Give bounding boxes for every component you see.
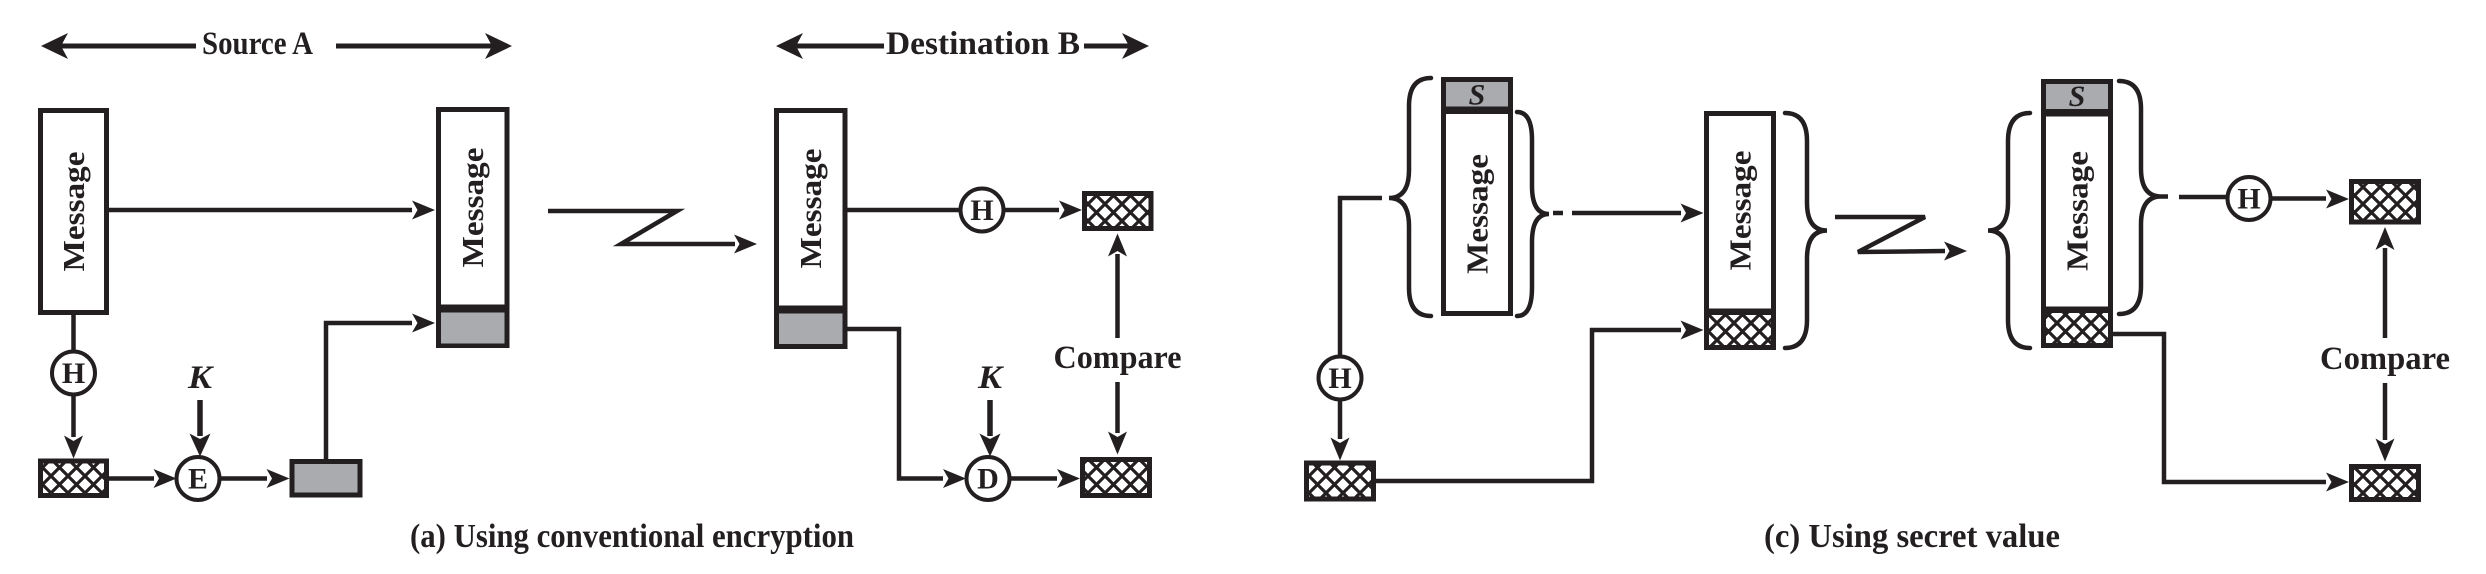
compare arrow up (c) (2376, 227, 2395, 338)
wire M3 to H2 (848, 208, 960, 213)
message box M3 with MAC tag (777, 111, 846, 347)
wire M1 to M2 (109, 201, 435, 220)
svg-text:Message: Message (1723, 151, 1758, 271)
channel zigzag (a) (548, 211, 757, 254)
svg-text:Destination B: Destination B (886, 26, 1080, 62)
arrow K to E (190, 400, 211, 457)
hash code box (a dest bottom) (1080, 457, 1152, 498)
svg-text:Message: Message (793, 149, 828, 269)
svg-text:H: H (970, 194, 993, 227)
wire brace to H3 (1340, 198, 1382, 357)
label Compare (a) (1054, 340, 1182, 376)
message box M1 (41, 111, 107, 313)
hash code box (c dest top) (2349, 179, 2421, 225)
MAC box (gray, source) (292, 462, 360, 496)
arrow hash code to E (109, 469, 177, 488)
brace right of received group (2119, 81, 2161, 314)
hash code box (c source) (1304, 461, 1376, 502)
encrypt function E (177, 457, 220, 500)
svg-text:Message: Message (2060, 151, 2095, 271)
arrow H4 to hash code (2271, 190, 2350, 209)
label Message (c received) (2060, 151, 2095, 271)
label Message (c source) (1460, 154, 1495, 274)
arrow D to hash code (1010, 469, 1081, 488)
arrow K to D (980, 400, 1001, 457)
message box M2 with MAC tag (439, 110, 508, 346)
compare arrow up (a) (1108, 234, 1127, 339)
svg-text:H: H (1328, 362, 1351, 395)
span arrow Source A (41, 33, 512, 59)
decrypt function D (967, 457, 1010, 500)
label Message (c transmitted) (1723, 151, 1758, 271)
hash function H2 (961, 189, 1004, 232)
wire hash code to M2c tag (1376, 321, 1704, 482)
channel zigzag (c) (1835, 217, 1967, 261)
svg-text:Message: Message (56, 152, 91, 272)
svg-text:K: K (187, 360, 214, 396)
caption (a) (410, 518, 854, 555)
arrow H1 to hash code (64, 395, 83, 459)
caption (c) (1764, 518, 2060, 555)
svg-text:E: E (188, 463, 208, 496)
wire M1 to H1 (71, 315, 76, 352)
compare arrow down (a) (1108, 382, 1127, 455)
brace right of source group (1517, 112, 1549, 316)
label K source (187, 360, 214, 396)
svg-text:Message: Message (1460, 154, 1495, 274)
svg-text:Compare: Compare (2320, 341, 2450, 377)
brace left of received group (1988, 113, 2030, 348)
Message+hash box (c transmitted) (1707, 114, 1774, 348)
S+Message+hash box (c received) (2044, 82, 2111, 346)
svg-text:H: H (62, 357, 85, 390)
label K dest (977, 360, 1004, 396)
wire received hash to compare box (2113, 334, 2349, 492)
brace right of transmitted group (1785, 113, 1827, 348)
compare arrow down (c) (2376, 383, 2395, 462)
svg-text:Source A: Source A (202, 26, 313, 62)
arrow E to MAC box (220, 469, 290, 488)
label Compare (c) (2320, 341, 2450, 377)
label Message M2 (455, 148, 490, 268)
label S (c source) (1469, 79, 1486, 112)
svg-text:S: S (2069, 80, 2086, 113)
arrow H3 to hash code (1331, 400, 1350, 461)
hash code box (c dest bottom) (2349, 464, 2421, 502)
label S (c received) (2069, 80, 2086, 113)
label Message M3 (793, 149, 828, 269)
brace left of source group (1389, 78, 1431, 316)
wire M3 tag to D (848, 329, 967, 488)
hash function H3 (1319, 357, 1362, 400)
label Destination B (886, 26, 1080, 62)
svg-text:(c) Using secret value: (c) Using secret value (1764, 518, 2060, 555)
svg-text:H: H (2237, 183, 2260, 216)
label Source A (202, 26, 313, 62)
wire MAC box to M2 tag (326, 314, 435, 460)
svg-text:Compare: Compare (1054, 340, 1182, 376)
wire brace to H4 (2161, 194, 2228, 199)
svg-text:K: K (977, 360, 1004, 396)
hash function H4 (2228, 177, 2271, 220)
hash function H1 (52, 352, 95, 395)
span arrow Destination B (776, 33, 1149, 59)
label Message M1 (56, 152, 91, 272)
svg-text:D: D (977, 463, 999, 496)
svg-text:(a) Using conventional encrypt: (a) Using conventional encryption (410, 518, 854, 555)
svg-text:Message: Message (455, 148, 490, 268)
arrow source group to M2c (1553, 204, 1704, 223)
hash code box (a dest top) (1082, 191, 1154, 231)
arrow H2 to hash code (1004, 201, 1083, 220)
S+Message box (c source) (1444, 80, 1511, 314)
hash code box (a source) (38, 459, 109, 499)
svg-text:S: S (1469, 79, 1486, 112)
